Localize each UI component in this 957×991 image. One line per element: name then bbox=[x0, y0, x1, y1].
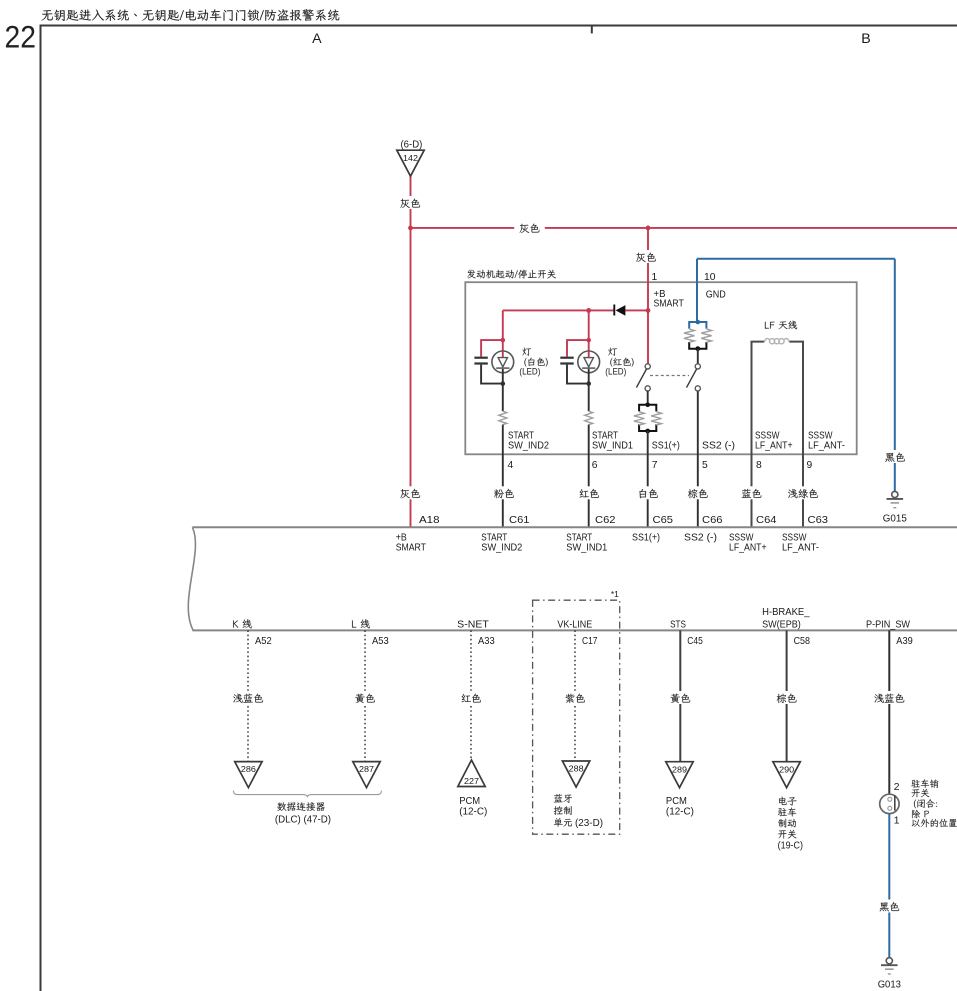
svg-text:SMART: SMART bbox=[396, 543, 426, 554]
svg-text:290: 290 bbox=[779, 765, 794, 774]
svg-text:C65: C65 bbox=[653, 515, 674, 526]
svg-text:SS2 (-): SS2 (-) bbox=[684, 533, 717, 544]
svg-text:*1: *1 bbox=[611, 590, 619, 599]
svg-text:C63: C63 bbox=[808, 515, 829, 526]
svg-text:G015: G015 bbox=[883, 514, 907, 525]
svg-text:GND: GND bbox=[706, 290, 726, 301]
svg-text:(19-C): (19-C) bbox=[778, 841, 803, 852]
svg-text:LF_ANT-: LF_ANT- bbox=[808, 441, 845, 452]
svg-text:PCM: PCM bbox=[666, 796, 687, 807]
svg-text:286: 286 bbox=[241, 765, 256, 774]
svg-text:C64: C64 bbox=[756, 515, 777, 526]
svg-text:(DLC) (47-D): (DLC) (47-D) bbox=[275, 815, 331, 826]
svg-text:VK-LINE: VK-LINE bbox=[557, 620, 592, 631]
svg-text:SW_IND1: SW_IND1 bbox=[566, 543, 607, 554]
svg-text:SW_IND1: SW_IND1 bbox=[592, 441, 633, 452]
svg-text:LF_ANT+: LF_ANT+ bbox=[755, 441, 793, 452]
svg-text:10: 10 bbox=[704, 272, 716, 283]
svg-text:7: 7 bbox=[652, 460, 658, 471]
svg-text:SW_IND2: SW_IND2 bbox=[508, 441, 549, 452]
svg-text:SMART: SMART bbox=[654, 299, 684, 310]
svg-text:C58: C58 bbox=[794, 636, 811, 647]
svg-text:LF_ANT+: LF_ANT+ bbox=[729, 543, 767, 554]
svg-text:SS2 (-): SS2 (-) bbox=[702, 441, 735, 452]
svg-text:6: 6 bbox=[592, 460, 598, 471]
svg-text:C45: C45 bbox=[687, 636, 703, 647]
svg-text:1: 1 bbox=[652, 272, 658, 283]
svg-text:5: 5 bbox=[702, 460, 708, 471]
svg-text:A: A bbox=[312, 31, 322, 47]
svg-text:(12-C): (12-C) bbox=[666, 807, 694, 818]
svg-text:A53: A53 bbox=[372, 636, 389, 647]
svg-text:288: 288 bbox=[569, 765, 584, 774]
svg-text:A18: A18 bbox=[419, 515, 440, 526]
svg-text:(23-D): (23-D) bbox=[575, 818, 603, 829]
svg-text:A39: A39 bbox=[896, 636, 913, 647]
svg-text:SS1(+): SS1(+) bbox=[632, 533, 660, 544]
svg-text:A52: A52 bbox=[255, 636, 272, 647]
svg-text:A33: A33 bbox=[478, 636, 495, 647]
svg-text:C66: C66 bbox=[702, 515, 723, 526]
svg-text:B: B bbox=[861, 31, 870, 47]
svg-text:STS: STS bbox=[670, 620, 686, 631]
svg-text:(LED): (LED) bbox=[605, 366, 626, 377]
svg-text:C61: C61 bbox=[509, 515, 530, 526]
svg-text:227: 227 bbox=[464, 777, 479, 786]
svg-text:PCM: PCM bbox=[459, 796, 480, 807]
svg-text:C62: C62 bbox=[595, 515, 616, 526]
svg-text:(6-D): (6-D) bbox=[401, 139, 423, 150]
svg-text:G013: G013 bbox=[878, 980, 901, 991]
svg-text:(LED): (LED) bbox=[519, 366, 540, 377]
svg-text:SW_IND2: SW_IND2 bbox=[481, 543, 522, 554]
svg-text:8: 8 bbox=[756, 460, 762, 471]
svg-text:4: 4 bbox=[508, 460, 514, 471]
svg-text:SS1(+): SS1(+) bbox=[652, 441, 680, 452]
svg-text:C17: C17 bbox=[582, 636, 598, 647]
svg-text:22: 22 bbox=[5, 19, 36, 55]
svg-text:2: 2 bbox=[894, 782, 900, 793]
svg-text:SW(EPB): SW(EPB) bbox=[762, 620, 801, 631]
svg-text:P-PIN_SW: P-PIN_SW bbox=[866, 620, 910, 631]
svg-text:289: 289 bbox=[672, 765, 687, 774]
svg-text:S-NET: S-NET bbox=[457, 620, 489, 631]
svg-text:(12-C): (12-C) bbox=[459, 807, 487, 818]
svg-text:142: 142 bbox=[403, 154, 418, 163]
svg-text:LF_ANT-: LF_ANT- bbox=[782, 543, 819, 554]
svg-text:287: 287 bbox=[359, 765, 374, 774]
svg-text:1: 1 bbox=[894, 816, 900, 827]
svg-text:9: 9 bbox=[807, 460, 813, 471]
svg-text:H-BRAKE_: H-BRAKE_ bbox=[762, 607, 810, 618]
